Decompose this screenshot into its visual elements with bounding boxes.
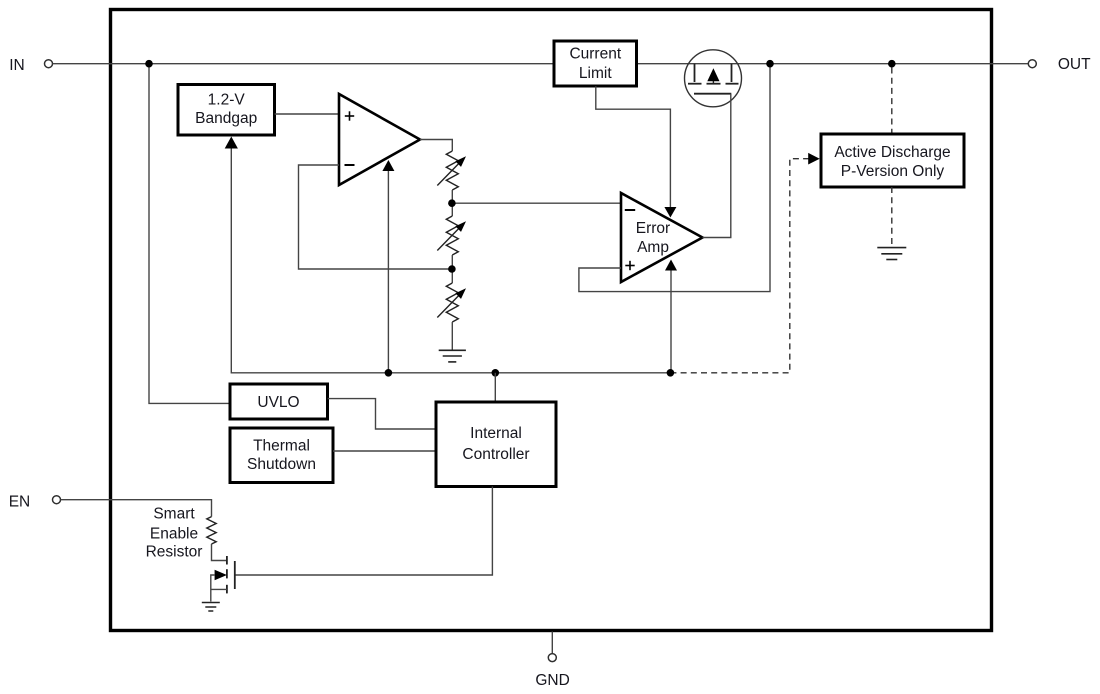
op-amp U1 (bandgap amplifier) (339, 94, 420, 185)
UVLO box (230, 384, 328, 419)
svg-text:Shutdown: Shutdown (247, 456, 316, 473)
svg-text:Bandgap: Bandgap (195, 110, 257, 127)
svg-text:P-Version Only: P-Version Only (841, 163, 945, 180)
Q1 gate bar (694, 93, 731, 95)
svg-text:OUT: OUT (1058, 56, 1091, 73)
GND pin stub (551, 632, 553, 654)
node F: bus at op-amp bias (385, 369, 393, 377)
Active Discharge box (821, 134, 964, 187)
arrowhead into active discharge left edge (808, 153, 820, 165)
resistor R1 (trimmed) (446, 151, 458, 190)
op-amp U1 minus sign (345, 164, 355, 166)
ground (enable FET) (202, 602, 220, 604)
wire error amp plus input sense loop to OUT (579, 64, 770, 292)
arrowhead into bandgap bottom (225, 137, 238, 149)
arrowhead into error amp bottom edge (665, 260, 677, 271)
wire IN to Current Limit (53, 63, 554, 65)
svg-text:1.2-V: 1.2-V (208, 91, 246, 108)
pass transistor Q1 circle (685, 50, 742, 107)
arrowhead into error amp top edge (664, 207, 676, 218)
wire reference bus up to bandgap (230, 148, 232, 374)
ground (divider) (439, 349, 466, 351)
svg-text:Current: Current (569, 46, 621, 63)
wire thermal shutdown to internal controller (333, 450, 436, 452)
Q1 source contact stub (694, 64, 696, 82)
node A: IN branch junction (145, 60, 153, 68)
error amp minus sign (625, 209, 635, 211)
wire error amp output up to Q1 gate (703, 94, 731, 238)
Internal Controller box (436, 402, 556, 487)
node C: divider tap 2 (448, 265, 456, 273)
Q2 gate bar (234, 561, 236, 589)
IN terminal circle (45, 60, 53, 68)
svg-text:Enable: Enable (150, 526, 198, 543)
outer IC boundary box (111, 10, 992, 631)
Q1 drain contact stub (731, 64, 733, 82)
svg-text:Thermal: Thermal (253, 437, 310, 454)
node E: OUT rail at discharge (888, 60, 896, 68)
svg-text:Limit: Limit (579, 65, 612, 82)
wire reference bus up into error amp bottom (670, 270, 672, 374)
svg-text:IN: IN (9, 57, 25, 74)
Q2 body arrow pointing right (215, 570, 227, 580)
wire bandgap output to op-amp + input (275, 113, 339, 115)
wire node A down to UVLO (149, 64, 230, 404)
Q1 channel segments (688, 83, 702, 85)
svg-text:Controller: Controller (462, 446, 529, 463)
OUT terminal circle (1028, 60, 1036, 68)
wire UVLO to internal controller (328, 399, 436, 429)
wire reference bus up into op-amp U1 bottom (387, 171, 389, 374)
svg-text:Internal: Internal (470, 425, 522, 442)
dashed wire bus to active discharge enable (670, 159, 808, 373)
dashed wire Active Discharge to ground (891, 187, 893, 245)
op-amp U1 plus sign (345, 115, 354, 117)
wire bus down to internal controller (494, 373, 496, 402)
resistor R2 (trimmed) (446, 216, 458, 255)
wire op-amp U1 feedback loop to divider tap (299, 165, 452, 269)
resistor R3 (trimmed) (446, 283, 458, 322)
Q1 body arrow pointing up (712, 72, 714, 84)
svg-text:Active Discharge: Active Discharge (834, 144, 950, 161)
wire R4 to enable FET drain (212, 544, 227, 561)
node B: divider tap 1 (448, 199, 456, 207)
svg-text:Amp: Amp (637, 239, 669, 256)
svg-text:Error: Error (636, 220, 670, 237)
resistor R4 smart enable (207, 517, 216, 544)
node G: bus at controller (492, 369, 500, 377)
Current Limit box (554, 41, 637, 86)
Error Amp triangle (621, 193, 703, 282)
svg-text:EN: EN (9, 493, 31, 510)
node H: bus at error amp bias (667, 369, 675, 377)
svg-text:Resistor: Resistor (146, 544, 203, 561)
GND terminal circle (548, 654, 556, 662)
wire R1 to R2 (451, 190, 453, 216)
svg-text:GND: GND (535, 672, 569, 689)
Q2 body and source tie to ground (211, 575, 215, 602)
Thermal Shutdown box (230, 428, 333, 483)
svg-text:UVLO: UVLO (257, 394, 299, 411)
ground (active discharge) (877, 247, 906, 249)
wire EN to smart enable resistor (61, 500, 212, 517)
wire internal controller down to enable FET gate (235, 487, 493, 576)
arrowhead into op-amp U1 bottom edge (382, 160, 394, 171)
wire R3 to ground (451, 322, 453, 350)
dashed wire OUT down to Active Discharge (891, 68, 893, 135)
1.2-V Bandgap box (178, 85, 275, 136)
reference bus wire (solid part) (231, 372, 670, 374)
wire R2 to R3 (451, 255, 453, 283)
node D: OUT rail at sense (766, 60, 774, 68)
wire op-amp U1 output to divider top (420, 140, 452, 152)
error amp plus sign (625, 265, 634, 267)
svg-text:Smart: Smart (153, 505, 195, 522)
EN terminal circle (53, 496, 61, 504)
wire divider tap 1 to error amp minus input (452, 202, 621, 204)
wire current limit down to error amp top (596, 86, 671, 207)
enable transistor Q2 channel segments (226, 556, 228, 565)
wire Current Limit through pass FET to OUT (637, 63, 1029, 65)
